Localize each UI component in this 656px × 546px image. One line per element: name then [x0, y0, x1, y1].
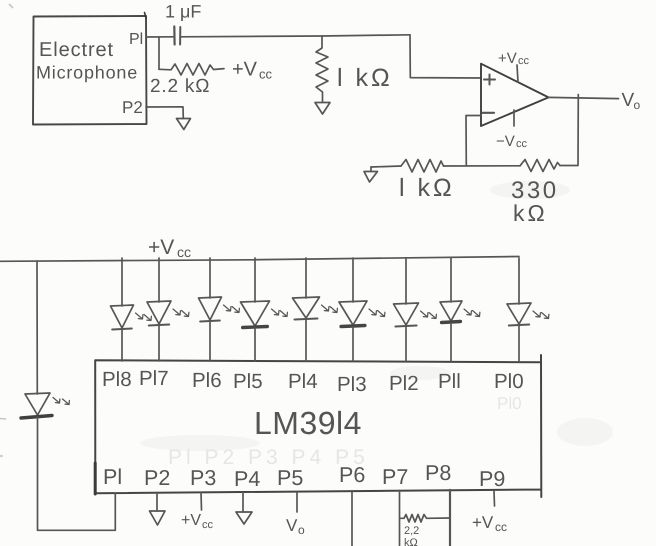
wire feedback from inverting input	[466, 116, 481, 166]
resistor R3 1k zigzag	[401, 160, 444, 173]
LED D10	[25, 393, 50, 415]
ground (microphone P2)	[177, 119, 191, 130]
op-amp -Vcc pin stub	[513, 110, 515, 126]
svg-text:kΩ: kΩ	[404, 537, 418, 546]
wire P1 to capacitor C1	[146, 36, 173, 38]
svg-text:2,2: 2,2	[404, 525, 419, 537]
wire +Vcc rail to LED D3	[405, 258, 407, 304]
LED D7	[199, 297, 222, 320]
wire LED D5 to IC pin	[305, 320, 307, 361]
wire +Vcc rail down left side to LED D10	[36, 261, 38, 394]
svg-text:Pll: Pll	[438, 370, 461, 393]
svg-text:cc: cc	[495, 520, 507, 534]
ground (P4)	[236, 512, 252, 524]
svg-text:P3: P3	[190, 466, 216, 490]
wire C1 to bend (signal line)	[181, 35, 410, 37]
wire +Vcc rail to LED D6	[254, 258, 256, 302]
op-amp +Vcc pin stub	[517, 65, 518, 82]
svg-text:cc: cc	[518, 55, 530, 67]
wire R4 to output junction	[560, 95, 578, 166]
svg-text:Pl8: Pl8	[102, 368, 132, 391]
LED D2	[440, 301, 462, 321]
svg-text:Pl0: Pl0	[497, 394, 522, 413]
svg-text:l kΩ: l kΩ	[399, 174, 455, 202]
svg-text:+V: +V	[232, 59, 258, 81]
svg-text:Pl7: Pl7	[139, 367, 169, 390]
svg-text:Pl3: Pl3	[337, 373, 367, 396]
svg-text:P4: P4	[234, 467, 260, 491]
wire +Vcc rail to LED D7	[209, 258, 211, 298]
wire LED D1 to IC pin	[518, 326, 520, 361]
op-amp U1 triangle	[481, 64, 549, 126]
resistor R2 1k vertical zigzag	[316, 36, 328, 102]
wire P8 down	[449, 490, 451, 546]
wire R3 to R4	[444, 165, 521, 167]
svg-text:cc: cc	[177, 244, 191, 260]
+Vcc rail (LED supply)	[0, 257, 519, 262]
wire LED D2 to IC pin	[450, 323, 452, 361]
IC U2 LM3914 box	[95, 355, 541, 497]
svg-text:+V: +V	[181, 512, 201, 529]
svg-text:Pl5: Pl5	[233, 370, 263, 393]
wire +Vcc rail to LED D2	[450, 258, 452, 302]
LED D5	[293, 297, 320, 318]
svg-text:P5: P5	[277, 466, 303, 490]
svg-text:Pl2: Pl2	[389, 372, 419, 395]
svg-text:P9: P9	[479, 467, 505, 491]
wire P9 stub	[493, 491, 496, 506]
ground (R3)	[370, 167, 372, 171]
wire P7 down	[399, 491, 401, 546]
LED D6	[241, 301, 270, 326]
resistor R1 2.2k zigzag	[159, 64, 224, 76]
node bias junction on P1 wire	[158, 37, 160, 69]
thick segment left edge near P1	[94, 463, 97, 494]
op-amp + input mark	[484, 75, 495, 85]
svg-text:Pl4: Pl4	[288, 370, 318, 393]
LED D8	[147, 301, 171, 324]
resistor R5 2.2k zigzag (P7-P8)	[400, 515, 451, 523]
wire +Vcc rail to LED D4	[352, 258, 354, 302]
svg-text:Electret: Electret	[39, 39, 114, 61]
LED D1	[507, 303, 531, 324]
scan artifact marks	[0, 4, 13, 456]
svg-text:o: o	[298, 523, 305, 537]
wire LED D10 to IC pin P1	[38, 417, 116, 530]
wire P4 to ground	[242, 493, 244, 513]
op-amp - input mark	[483, 112, 495, 114]
svg-text:P2: P2	[144, 466, 170, 490]
wire LED D8 to IC pin	[158, 326, 160, 361]
electret microphone module box	[33, 16, 147, 125]
ground (P2)	[150, 511, 166, 525]
wire LED D4 to IC pin	[352, 327, 354, 361]
wire P3 stub	[200, 493, 203, 511]
wire LED D9 to IC pin	[121, 330, 123, 361]
svg-text:cc: cc	[259, 67, 273, 82]
svg-text:cc: cc	[202, 519, 214, 531]
wire P2 to ground	[146, 107, 183, 119]
svg-text:P8: P8	[425, 461, 451, 485]
wire bend down to op-amp + input	[410, 35, 481, 78]
svg-text:P6: P6	[339, 463, 365, 487]
wire +Vcc rail to LED D1	[518, 258, 520, 304]
faint paper smudges	[140, 181, 613, 451]
LED D9	[111, 305, 134, 328]
wire P6 down	[351, 491, 353, 546]
svg-text:1 μF: 1 μF	[165, 2, 201, 22]
wire op-amp output to Vo	[549, 97, 619, 98]
svg-text:+V: +V	[472, 513, 494, 532]
svg-text:Pl: Pl	[129, 31, 143, 48]
svg-text:+V: +V	[148, 236, 174, 259]
svg-text:l kΩ: l kΩ	[337, 64, 393, 92]
wire LED D3 to IC pin	[405, 327, 407, 361]
capacitor C1 plates	[173, 27, 176, 45]
svg-text:−V: −V	[496, 133, 515, 150]
svg-text:V: V	[286, 516, 298, 535]
wire +Vcc rail to LED D5	[305, 258, 307, 298]
svg-text:P2: P2	[122, 98, 143, 117]
wire +Vcc rail to LED D8	[158, 258, 160, 302]
wire ground to R3	[371, 166, 401, 167]
svg-text:Pl: Pl	[103, 465, 122, 489]
wire +Vcc rail to LED D9	[121, 258, 123, 306]
resistor R4 330k zigzag	[520, 160, 560, 172]
svg-text:Pl6: Pl6	[192, 369, 222, 392]
wire LED D7 to IC pin	[209, 322, 211, 361]
svg-text:o: o	[634, 98, 641, 112]
ground (R2)	[315, 103, 330, 115]
svg-text:2.2 kΩ: 2.2 kΩ	[150, 76, 210, 97]
svg-text:Microphone: Microphone	[36, 63, 138, 83]
svg-text:kΩ: kΩ	[513, 200, 548, 226]
svg-text:LM39l4: LM39l4	[254, 405, 362, 441]
svg-text:Pl0: Pl0	[494, 370, 524, 393]
svg-text:cc: cc	[516, 138, 528, 150]
svg-text:+V: +V	[498, 50, 517, 67]
svg-text:P7: P7	[382, 465, 408, 489]
LED D4	[339, 301, 367, 325]
LED D3	[394, 303, 419, 325]
wire P2 to ground	[156, 493, 158, 512]
wire LED D6 to IC pin	[254, 328, 256, 361]
wire P5 stub	[296, 493, 298, 512]
